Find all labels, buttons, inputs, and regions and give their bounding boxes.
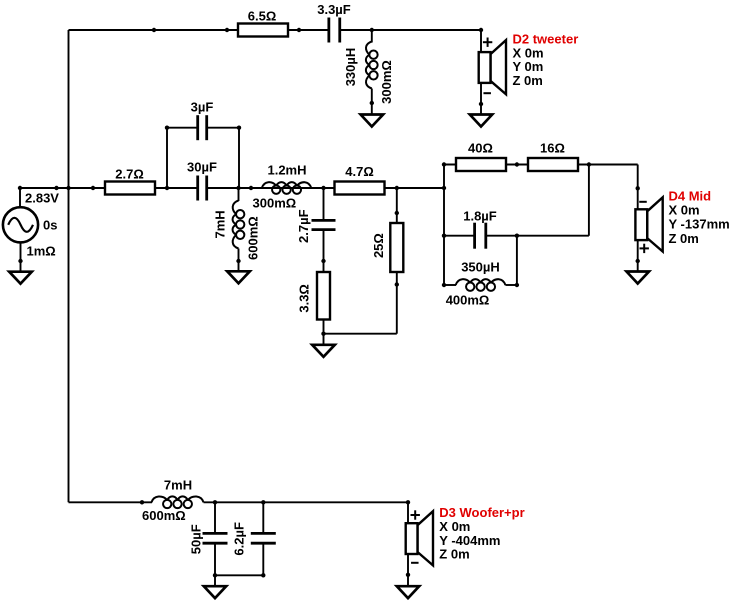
svg-text:X 0m: X 0m bbox=[669, 203, 700, 218]
node D4 bottom dot bbox=[636, 259, 640, 263]
svg-text:1.8µF: 1.8µF bbox=[463, 209, 497, 224]
wire 1.8uF row right bbox=[486, 235, 589, 237]
node 6.2uF bottom dot bbox=[261, 573, 265, 577]
label 0s bbox=[43, 217, 57, 232]
wire 330uH branch top bbox=[371, 30, 373, 43]
wire top bus right of 3.3uF cap bbox=[341, 29, 481, 31]
wire caps bottom join bbox=[215, 574, 263, 576]
node top bus dot 2 bbox=[225, 28, 229, 32]
node 3.3ohm bottom dot bbox=[321, 332, 325, 336]
svg-text:X 0m: X 0m bbox=[513, 45, 544, 60]
resistor 2.7&#937; bbox=[105, 167, 155, 195]
node 6.2uF junction bbox=[261, 500, 265, 504]
wire bottom bus mid bbox=[204, 501, 409, 503]
resistor 3.3&#937; bbox=[297, 272, 331, 320]
inductor 330&#181;H 300m&#937; bbox=[343, 42, 394, 104]
svg-text:Y -137mm: Y -137mm bbox=[669, 217, 730, 232]
node top bus dot 3 bbox=[297, 28, 301, 32]
capacitor 2.7&#181;F bbox=[296, 209, 336, 243]
svg-text:X 0m: X 0m bbox=[439, 519, 470, 534]
wire 3.3ohm bottom bbox=[323, 320, 325, 345]
node right vert 1.8uF dot bbox=[442, 234, 446, 238]
node 350uH right dot bbox=[515, 283, 519, 287]
wire right vertical 589 bbox=[588, 165, 590, 236]
node 25ohm bottom dot bbox=[395, 282, 399, 286]
svg-text:3.3Ω: 3.3Ω bbox=[297, 284, 312, 313]
ground under D2 bbox=[470, 115, 492, 127]
svg-text:7mH: 7mH bbox=[212, 210, 227, 238]
polarity - of D3 bbox=[411, 562, 419, 564]
capacitor 1.8&#181;F bbox=[463, 209, 497, 249]
polarity + of D3 bbox=[411, 510, 420, 519]
node 3.3ohm top dot bbox=[321, 259, 325, 263]
wire 350uH row left bbox=[444, 284, 456, 286]
node 3uF branch right dot bbox=[237, 126, 241, 130]
inductor 7mH 600m&#937; bbox=[212, 201, 260, 262]
svg-text:50µF: 50µF bbox=[189, 524, 204, 554]
wire to ground bottom bbox=[214, 575, 216, 586]
svg-text:350µH: 350µH bbox=[461, 260, 500, 275]
wire D4 bottom bbox=[637, 240, 639, 271]
wire 50uF bottom bbox=[214, 542, 216, 575]
polarity - of D4 bbox=[639, 201, 647, 203]
svg-text:4.7Ω: 4.7Ω bbox=[345, 164, 374, 179]
node D3 corner dot bbox=[406, 500, 410, 504]
svg-text:6.5Ω: 6.5Ω bbox=[248, 9, 277, 24]
node mid dot 2 bbox=[91, 186, 95, 190]
svg-text:D2 tweeter: D2 tweeter bbox=[513, 32, 579, 47]
svg-text:300mΩ: 300mΩ bbox=[253, 196, 297, 211]
capacitor 50&#181;F bbox=[189, 524, 228, 554]
wire bottom bus left bbox=[69, 501, 153, 503]
wire 3uF left leg bbox=[166, 128, 168, 188]
wire D2 bottom bbox=[480, 83, 482, 115]
node 25ohm top dot bbox=[395, 211, 399, 215]
resistor 25&#937; bbox=[371, 223, 403, 272]
node 40-16 dot bbox=[515, 162, 519, 166]
speaker D4 Mid symbol bbox=[635, 197, 662, 251]
svg-text:600mΩ: 600mΩ bbox=[142, 508, 186, 523]
wire 25ohm top bbox=[396, 188, 398, 223]
svg-text:7mH: 7mH bbox=[164, 478, 192, 493]
wire 40ohm row bbox=[444, 164, 528, 166]
svg-text:D3 Woofer+pr: D3 Woofer+pr bbox=[439, 505, 524, 520]
label D2 tweeter bbox=[513, 32, 579, 88]
svg-text:Y 0m: Y 0m bbox=[513, 59, 544, 74]
svg-text:600mΩ: 600mΩ bbox=[246, 216, 261, 260]
node 7mH junction bbox=[236, 186, 240, 190]
node 50uF bottom dot bbox=[213, 573, 217, 577]
svg-text:0s: 0s bbox=[43, 217, 57, 232]
ground under D3 bbox=[397, 586, 419, 598]
node source bottom dot bbox=[18, 259, 22, 263]
node mid dot 1 bbox=[54, 186, 58, 190]
svg-text:Z 0m: Z 0m bbox=[513, 73, 543, 88]
node 25ohm junction bbox=[395, 186, 399, 190]
capacitor 3&#181;F bbox=[191, 100, 214, 141]
wire to D3 bbox=[407, 502, 409, 523]
wire 3uF branch right bbox=[208, 127, 240, 129]
polarity + of D2 bbox=[483, 38, 492, 47]
wire middle bus segment 2 bbox=[208, 187, 445, 189]
svg-text:2.83V: 2.83V bbox=[25, 191, 59, 206]
polarity - of D2 bbox=[483, 92, 491, 94]
svg-text:330µH: 330µH bbox=[343, 48, 358, 87]
wire 330uH to ground bbox=[371, 103, 373, 115]
node top-right corner dot bbox=[479, 28, 483, 32]
node mid-right junction bbox=[442, 186, 446, 190]
svg-text:30µF: 30µF bbox=[187, 160, 217, 175]
wire 2.7uF to 3.3ohm bbox=[323, 229, 325, 273]
wire 6.2uF top bbox=[262, 502, 264, 534]
node D2 bottom dot bbox=[479, 102, 483, 106]
svg-text:1.2mH: 1.2mH bbox=[267, 163, 306, 178]
node 50uF junction bbox=[213, 500, 217, 504]
svg-text:3.3µF: 3.3µF bbox=[317, 2, 351, 17]
label D3 Woofer+pr bbox=[439, 505, 524, 562]
svg-text:Z 0m: Z 0m bbox=[669, 231, 699, 246]
wire 3.3ohm to 25ohm bottom bbox=[324, 333, 397, 335]
svg-text:16Ω: 16Ω bbox=[540, 141, 565, 156]
node bottom dot 1 bbox=[140, 500, 144, 504]
wire 3uF right leg bbox=[238, 128, 240, 188]
node left vertical junction bbox=[66, 186, 70, 190]
speaker D2 tweeter symbol bbox=[479, 40, 506, 94]
node mid dot 3 bbox=[249, 186, 253, 190]
node D3 bottom dot bbox=[406, 573, 410, 577]
ground under D4 bbox=[627, 272, 650, 284]
svg-text:300mΩ: 300mΩ bbox=[379, 60, 394, 104]
wire D3 bottom bbox=[407, 554, 409, 586]
ground under source bbox=[9, 272, 32, 284]
svg-text:6.2µF: 6.2µF bbox=[232, 522, 247, 556]
wire source bottom bbox=[20, 242, 22, 271]
inductor 7mH 600m&#937; bottom bbox=[142, 478, 204, 524]
wire corner to D4 bbox=[637, 165, 639, 210]
svg-text:Y -404mm: Y -404mm bbox=[439, 533, 500, 548]
resistor 40&#937; bbox=[456, 141, 506, 172]
node 3uF left leg junction bbox=[165, 186, 169, 190]
wire 7mH to ground bbox=[238, 261, 240, 271]
capacitor 3.3&#181;F bbox=[317, 2, 351, 43]
resistor 6.5&#937; bbox=[238, 9, 288, 37]
svg-text:25Ω: 25Ω bbox=[371, 233, 386, 258]
node top bus dot 1 bbox=[152, 28, 156, 32]
resistor 4.7&#937; bbox=[335, 164, 385, 195]
node 3uF branch left dot bbox=[165, 126, 169, 130]
node 2.7uF junction bbox=[321, 186, 325, 190]
capacitor 6.2&#181;F bbox=[232, 522, 276, 556]
label 1m&#937; bbox=[27, 244, 56, 259]
wire 25ohm bottom bbox=[396, 272, 398, 334]
node right vert 350uH dot bbox=[442, 283, 446, 287]
svg-text:40Ω: 40Ω bbox=[468, 141, 493, 156]
svg-text:2.7Ω: 2.7Ω bbox=[115, 167, 144, 182]
ground under 50uF bbox=[204, 586, 226, 598]
wire 3uF branch left bbox=[167, 127, 197, 129]
svg-text:Z 0m: Z 0m bbox=[439, 547, 469, 562]
svg-text:D4 Mid: D4 Mid bbox=[669, 189, 712, 204]
ground under 330uH bbox=[361, 115, 384, 127]
voltage source V1 bbox=[3, 207, 38, 242]
wire 6.2uF bottom bbox=[262, 542, 264, 575]
wire to D2 tweeter bbox=[480, 30, 482, 53]
wire 16ohm to corner bbox=[577, 164, 638, 166]
label D4 Mid bbox=[669, 189, 730, 246]
node D4 top dot bbox=[636, 186, 640, 190]
wire 2.7uF top bbox=[323, 188, 325, 222]
wire 350uH right leg bbox=[516, 236, 518, 285]
wire 1.8uF row bbox=[444, 235, 474, 237]
svg-text:1mΩ: 1mΩ bbox=[27, 244, 56, 259]
inductor 350&#181;H 400m&#937; bbox=[446, 260, 517, 308]
wire 7mH top bbox=[238, 188, 240, 201]
speaker D3 Woofer symbol bbox=[406, 511, 433, 565]
svg-text:3µF: 3µF bbox=[191, 100, 214, 115]
node 330uH top dot bbox=[370, 28, 374, 32]
resistor 16&#937; bbox=[528, 141, 578, 172]
wire middle bus bbox=[20, 187, 197, 189]
wire top bus bbox=[69, 29, 328, 31]
svg-text:400mΩ: 400mΩ bbox=[446, 293, 490, 308]
capacitor 30&#181;F bbox=[187, 160, 217, 201]
ground under 3.3ohm bbox=[312, 345, 335, 357]
wire 50uF top bbox=[214, 502, 216, 534]
svg-text:2.7µF: 2.7µF bbox=[296, 209, 311, 243]
node right vert top dot bbox=[442, 162, 446, 166]
node source top dot bbox=[18, 186, 22, 190]
inductor 1.2mH 300m&#937; bbox=[253, 163, 312, 211]
wire mid-right vertical bbox=[443, 165, 445, 286]
node 7mH bottom dot bbox=[236, 259, 240, 263]
wire source top bbox=[19, 188, 21, 207]
polarity + of D4 bbox=[640, 244, 649, 253]
wire main left vertical bbox=[68, 30, 70, 502]
node 330uH bottom dot bbox=[370, 101, 374, 105]
node 16ohm right dot bbox=[587, 162, 591, 166]
ground under 7mH bbox=[227, 271, 250, 283]
label 2.83V bbox=[25, 191, 59, 206]
node 1.8uF right dot bbox=[515, 234, 519, 238]
